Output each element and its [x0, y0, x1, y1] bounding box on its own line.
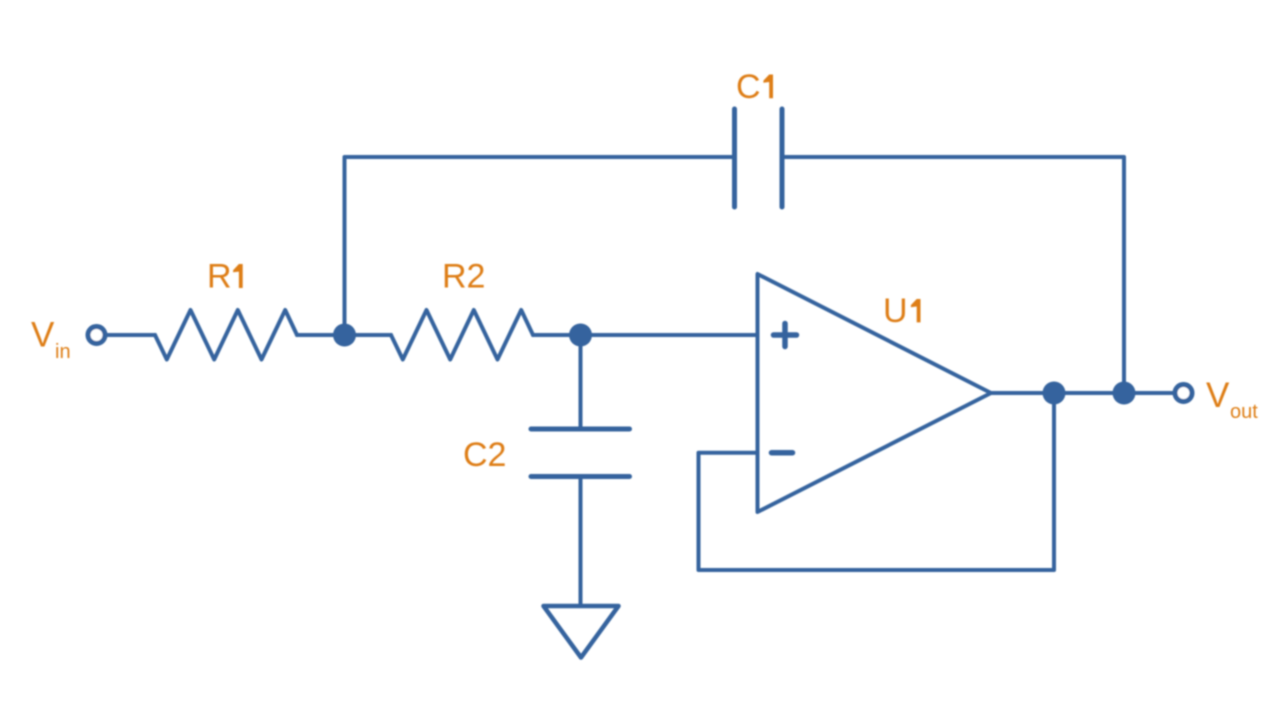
op-amp minus input marker: [772, 450, 793, 456]
wire input to R1: [106, 333, 155, 337]
op-amp plus input marker: [774, 324, 797, 347]
svg-text:out: out: [1230, 401, 1258, 423]
capacitor C1 right plate: [780, 109, 785, 207]
svg-text:U: U: [883, 292, 908, 330]
wire R1 to R2 through node A: [297, 333, 391, 337]
wire op-amp output to Vout: [991, 391, 1175, 395]
wire C1 to output node B: [782, 157, 1124, 393]
op-amp U1 body: [758, 274, 992, 512]
svg-text:V: V: [31, 316, 55, 355]
output junction dot node B: [1113, 382, 1136, 405]
node A junction dot: [333, 324, 356, 347]
resistor R1: [155, 310, 297, 360]
output junction dot 1: [1043, 382, 1066, 405]
wire node A up to C1: [345, 157, 735, 335]
svg-text:C: C: [736, 68, 761, 106]
input terminal: [88, 327, 105, 344]
wire node C down to C2: [579, 335, 583, 429]
svg-text:V: V: [1206, 376, 1230, 415]
capacitor C2 bottom plate: [531, 474, 630, 479]
node C junction dot: [569, 324, 592, 347]
ground: [544, 606, 619, 658]
capacitor C2 top plate: [531, 427, 630, 432]
svg-text:in: in: [55, 341, 71, 363]
svg-text:R2: R2: [442, 258, 485, 296]
svg-text:R: R: [207, 258, 232, 296]
svg-text:C2: C2: [463, 436, 506, 474]
wire C2 to ground: [579, 477, 583, 607]
resistor R2: [391, 310, 533, 360]
wire feedback from output node to inverting input: [699, 393, 1055, 570]
wire R2 to op-amp noninverting input: [533, 333, 758, 337]
output terminal: [1175, 385, 1192, 402]
capacitor C1 left plate: [732, 109, 737, 207]
